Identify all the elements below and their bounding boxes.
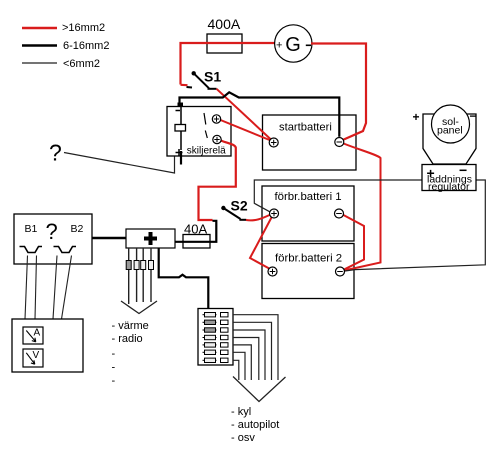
svg-text:V: V (33, 350, 40, 361)
wire red forbr.batteri1 plus to forbr.batteri2 plus (250, 217, 272, 270)
terminal block output wire 6 (233, 352, 245, 380)
svg-text:-: - (112, 362, 116, 374)
terminal block output wire 2 (233, 322, 272, 380)
svg-text:G: G (285, 34, 301, 56)
switch S1 right contact tick (208, 88, 217, 90)
startbatteri plus terminal (269, 138, 278, 147)
ammeter needle (26, 331, 36, 342)
svg-text:?: ? (49, 140, 62, 166)
relay skiljerela box (167, 107, 231, 157)
skiljerela bottom stub below box (180, 151, 182, 165)
legend thin line <6mm2 (22, 62, 57, 64)
battery selector B1B2 box (14, 214, 92, 264)
skiljerela upper terminal circled plus (212, 115, 220, 123)
voltmeter needle (26, 353, 35, 364)
solar panel circle (432, 105, 470, 143)
terminal block output wire 4 (233, 338, 259, 381)
terminal block row 7 (203, 358, 229, 362)
skiljerela relay contact blade (204, 113, 207, 138)
wire thin B1B2 to meter box 4 (62, 256, 72, 320)
charge regulator box (422, 165, 476, 191)
svg-text:B1: B1 (25, 223, 38, 235)
terminal block row 6 (203, 350, 229, 354)
legend black thick line 6-16mm2 (22, 44, 57, 47)
distribution fuse line 4 (150, 248, 152, 302)
plus symbol in distribution box (144, 232, 157, 245)
svg-text:regulator: regulator (428, 181, 470, 193)
switch S1 pivot dot (192, 71, 196, 75)
wire thin regulator plus to forbr.batteri1 plus (254, 180, 422, 212)
generator minus mark (306, 44, 311, 46)
breaker symbol right (54, 247, 77, 253)
svg-text:S1: S1 (204, 69, 221, 85)
svg-text:+: + (413, 110, 420, 124)
svg-text:?: ? (46, 219, 58, 244)
distribution fuse body 2 (134, 261, 139, 270)
battery forbr.batteri 1 box (262, 186, 354, 241)
wire red S1 to startbatteri plus (217, 89, 273, 141)
distribution fuse body 1 (126, 261, 131, 270)
plus distribution box (126, 229, 175, 248)
svg-text:- radio: - radio (112, 333, 143, 345)
svg-text:skiljerelä: skiljerelä (187, 146, 226, 157)
startbatteri minus terminal (335, 138, 344, 147)
fuse F1 400A body (207, 34, 242, 53)
wire red startbatteri minus to forbr.batteri2 minus (344, 144, 381, 271)
skiljerela minus mark (176, 110, 181, 112)
skiljerela plus mark (176, 149, 183, 156)
wire black skiljerela minus to startbatteri minus with hop (180, 92, 340, 137)
meter panel box (12, 319, 83, 372)
svg-text:A: A (34, 328, 41, 339)
svg-text:6-16mm2: 6-16mm2 (63, 40, 109, 52)
wire black B1B2 box to plus distribution box (92, 237, 126, 239)
ammeter box (23, 327, 43, 344)
wire black distribution box to fuse terminal block (159, 248, 209, 308)
wire red generator to startbatteri minus (311, 44, 366, 141)
terminal block output wire 5 (233, 345, 251, 380)
legend red line >16mm2 (22, 27, 57, 30)
skiljerela top terminal blob (178, 103, 184, 107)
wire thin B1B2 to meter box 1 (25, 256, 28, 320)
terminal block row 2 (203, 320, 229, 324)
terminal block row 5 (203, 343, 229, 347)
svg-text:- värme: - värme (112, 320, 149, 332)
switch S2 blade (223, 208, 240, 219)
wire red skiljerela lower terminal down to S2 node (199, 141, 236, 221)
wire red from S1 corner through 400A fuse to generator (181, 43, 276, 85)
arrowhead under distribution fuses (121, 301, 157, 314)
svg-text:B2: B2 (71, 223, 84, 235)
breaker symbol left (20, 247, 43, 253)
distribution fuse line 2 (136, 248, 138, 302)
battery startbatteri box (263, 115, 357, 170)
terminal block output wire 7 (233, 360, 239, 380)
wire thin regulator minus to forbr.batteri2 minus (345, 180, 486, 271)
wire thin from question mark to skiljerela bottom (64, 153, 175, 174)
skiljerela coil top lead (180, 107, 182, 125)
skiljerela coil bottom lead (180, 131, 182, 150)
distribution fuse body 3 (141, 261, 146, 270)
svg-text:startbatteri: startbatteri (279, 122, 332, 134)
forbr.batteri 1 plus terminal (270, 209, 279, 218)
distribution fuse body 4 (149, 261, 154, 270)
wire thin B1B2 to meter box 3 (53, 256, 57, 320)
switch S1 left contact tick (187, 86, 193, 89)
fuse terminal block box (198, 309, 233, 366)
terminal block output wire 3 (233, 330, 265, 380)
fuse F2 40A body (183, 235, 210, 249)
svg-text:-: - (112, 375, 116, 387)
svg-text:400A: 400A (208, 16, 241, 32)
skiljerela coil rectangle (175, 125, 186, 132)
wire red skiljerela upper terminal to startbatteri plus (221, 120, 273, 141)
arrowhead for terminal block outputs (233, 377, 286, 402)
svg-text:S2: S2 (231, 198, 248, 214)
wire red forbr.batteri1 minus to forbr.batteri2 minus (343, 215, 365, 270)
wire red stub at S1 left contact (181, 84, 188, 87)
svg-text:−: − (470, 109, 477, 123)
wire black S2 node through 40A fuse to plus distribution box (175, 221, 216, 242)
svg-text:förbr.batteri 2: förbr.batteri 2 (275, 253, 342, 265)
svg-text:-: - (112, 348, 116, 360)
forbr.batteri 2 plus terminal (268, 267, 277, 276)
svg-text:förbr.batteri 1: förbr.batteri 1 (275, 191, 342, 203)
terminal block row 4 (203, 335, 229, 339)
terminal block output wire 1 (233, 315, 278, 380)
generator G circle (275, 25, 312, 62)
distribution fuse line 1 (128, 248, 130, 304)
wire thin B1B2 to meter box 2 (35, 256, 37, 320)
terminal block row 1 (203, 313, 229, 317)
svg-text:+: + (276, 40, 282, 52)
solar panel body (423, 114, 476, 164)
svg-text:- kyl: - kyl (231, 406, 251, 418)
voltmeter box (23, 349, 43, 367)
switch S2 pivot dot (221, 206, 225, 210)
svg-text:<6mm2: <6mm2 (63, 58, 100, 70)
svg-text:>16mm2: >16mm2 (62, 22, 105, 34)
wire red S2 to forbr.batteri1 plus (246, 215, 270, 220)
switch S1 blade (194, 73, 209, 88)
switch S2 right contact tick (239, 219, 246, 221)
svg-text:- osv: - osv (231, 432, 255, 444)
forbr.batteri 2 minus terminal (336, 267, 345, 276)
terminal block row 3 (203, 328, 229, 332)
distribution fuse line 3 (142, 248, 144, 302)
battery forbr.batteri 2 box (262, 244, 354, 299)
svg-text:- autopilot: - autopilot (231, 419, 279, 431)
svg-text:panel: panel (437, 125, 463, 137)
skiljerela lower terminal circled plus (213, 135, 221, 143)
forbr.batteri 1 minus terminal (335, 209, 344, 218)
